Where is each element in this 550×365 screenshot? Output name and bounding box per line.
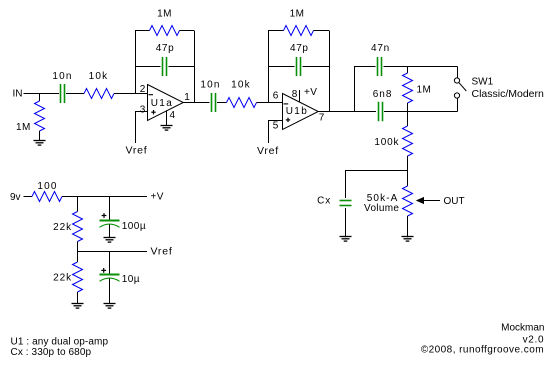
svg-text:100: 100 (37, 181, 57, 192)
svg-text:47n: 47n (371, 43, 390, 54)
svg-text:1M: 1M (290, 9, 305, 20)
svg-text:6n8: 6n8 (373, 89, 393, 100)
svg-text:IN: IN (13, 89, 23, 100)
svg-text:U1 : any dual op-amp: U1 : any dual op-amp (11, 336, 109, 347)
svg-text:1M: 1M (417, 84, 432, 95)
svg-text:OUT: OUT (444, 196, 465, 207)
svg-text:Vref: Vref (151, 245, 173, 257)
svg-text:8: 8 (292, 89, 298, 100)
svg-text:Cx : 330p to 680p: Cx : 330p to 680p (11, 347, 92, 358)
svg-text:10n: 10n (200, 80, 220, 91)
svg-text:10µ: 10µ (122, 274, 140, 285)
svg-text:Vref: Vref (125, 144, 147, 156)
svg-text:Volume: Volume (364, 203, 399, 214)
svg-text:5: 5 (273, 121, 279, 132)
svg-text:U1b: U1b (286, 106, 309, 117)
svg-text:2: 2 (140, 84, 146, 95)
svg-text:SW1: SW1 (472, 76, 494, 87)
svg-text:47p: 47p (290, 43, 309, 54)
svg-text:10n: 10n (52, 71, 72, 82)
svg-text:Mockman: Mockman (501, 323, 544, 334)
svg-text:22k: 22k (53, 222, 72, 233)
svg-text:Classic/Modern: Classic/Modern (472, 88, 545, 100)
svg-text:1M: 1M (16, 122, 31, 133)
svg-text:1: 1 (184, 92, 190, 103)
svg-text:1M: 1M (157, 9, 172, 20)
svg-text:4: 4 (170, 110, 176, 121)
svg-text:100k: 100k (374, 137, 399, 148)
svg-text:50k-A: 50k-A (367, 193, 399, 204)
svg-text:10k: 10k (89, 71, 109, 82)
svg-text:10k: 10k (231, 80, 251, 91)
svg-text:3: 3 (140, 104, 146, 115)
svg-text:9v: 9v (10, 192, 21, 203)
svg-text:7: 7 (319, 113, 325, 124)
svg-text:100µ: 100µ (122, 221, 146, 232)
svg-text:Cx: Cx (317, 195, 331, 206)
svg-text:47p: 47p (156, 43, 175, 54)
svg-text:22k: 22k (53, 273, 72, 284)
svg-text:Vref: Vref (257, 145, 279, 157)
svg-text:©2008, runoffgroove.com: ©2008, runoffgroove.com (421, 345, 544, 356)
svg-text:6: 6 (273, 91, 279, 102)
svg-text:+V: +V (304, 87, 317, 98)
svg-text:U1a: U1a (151, 98, 174, 109)
svg-text:+V: +V (151, 191, 164, 202)
